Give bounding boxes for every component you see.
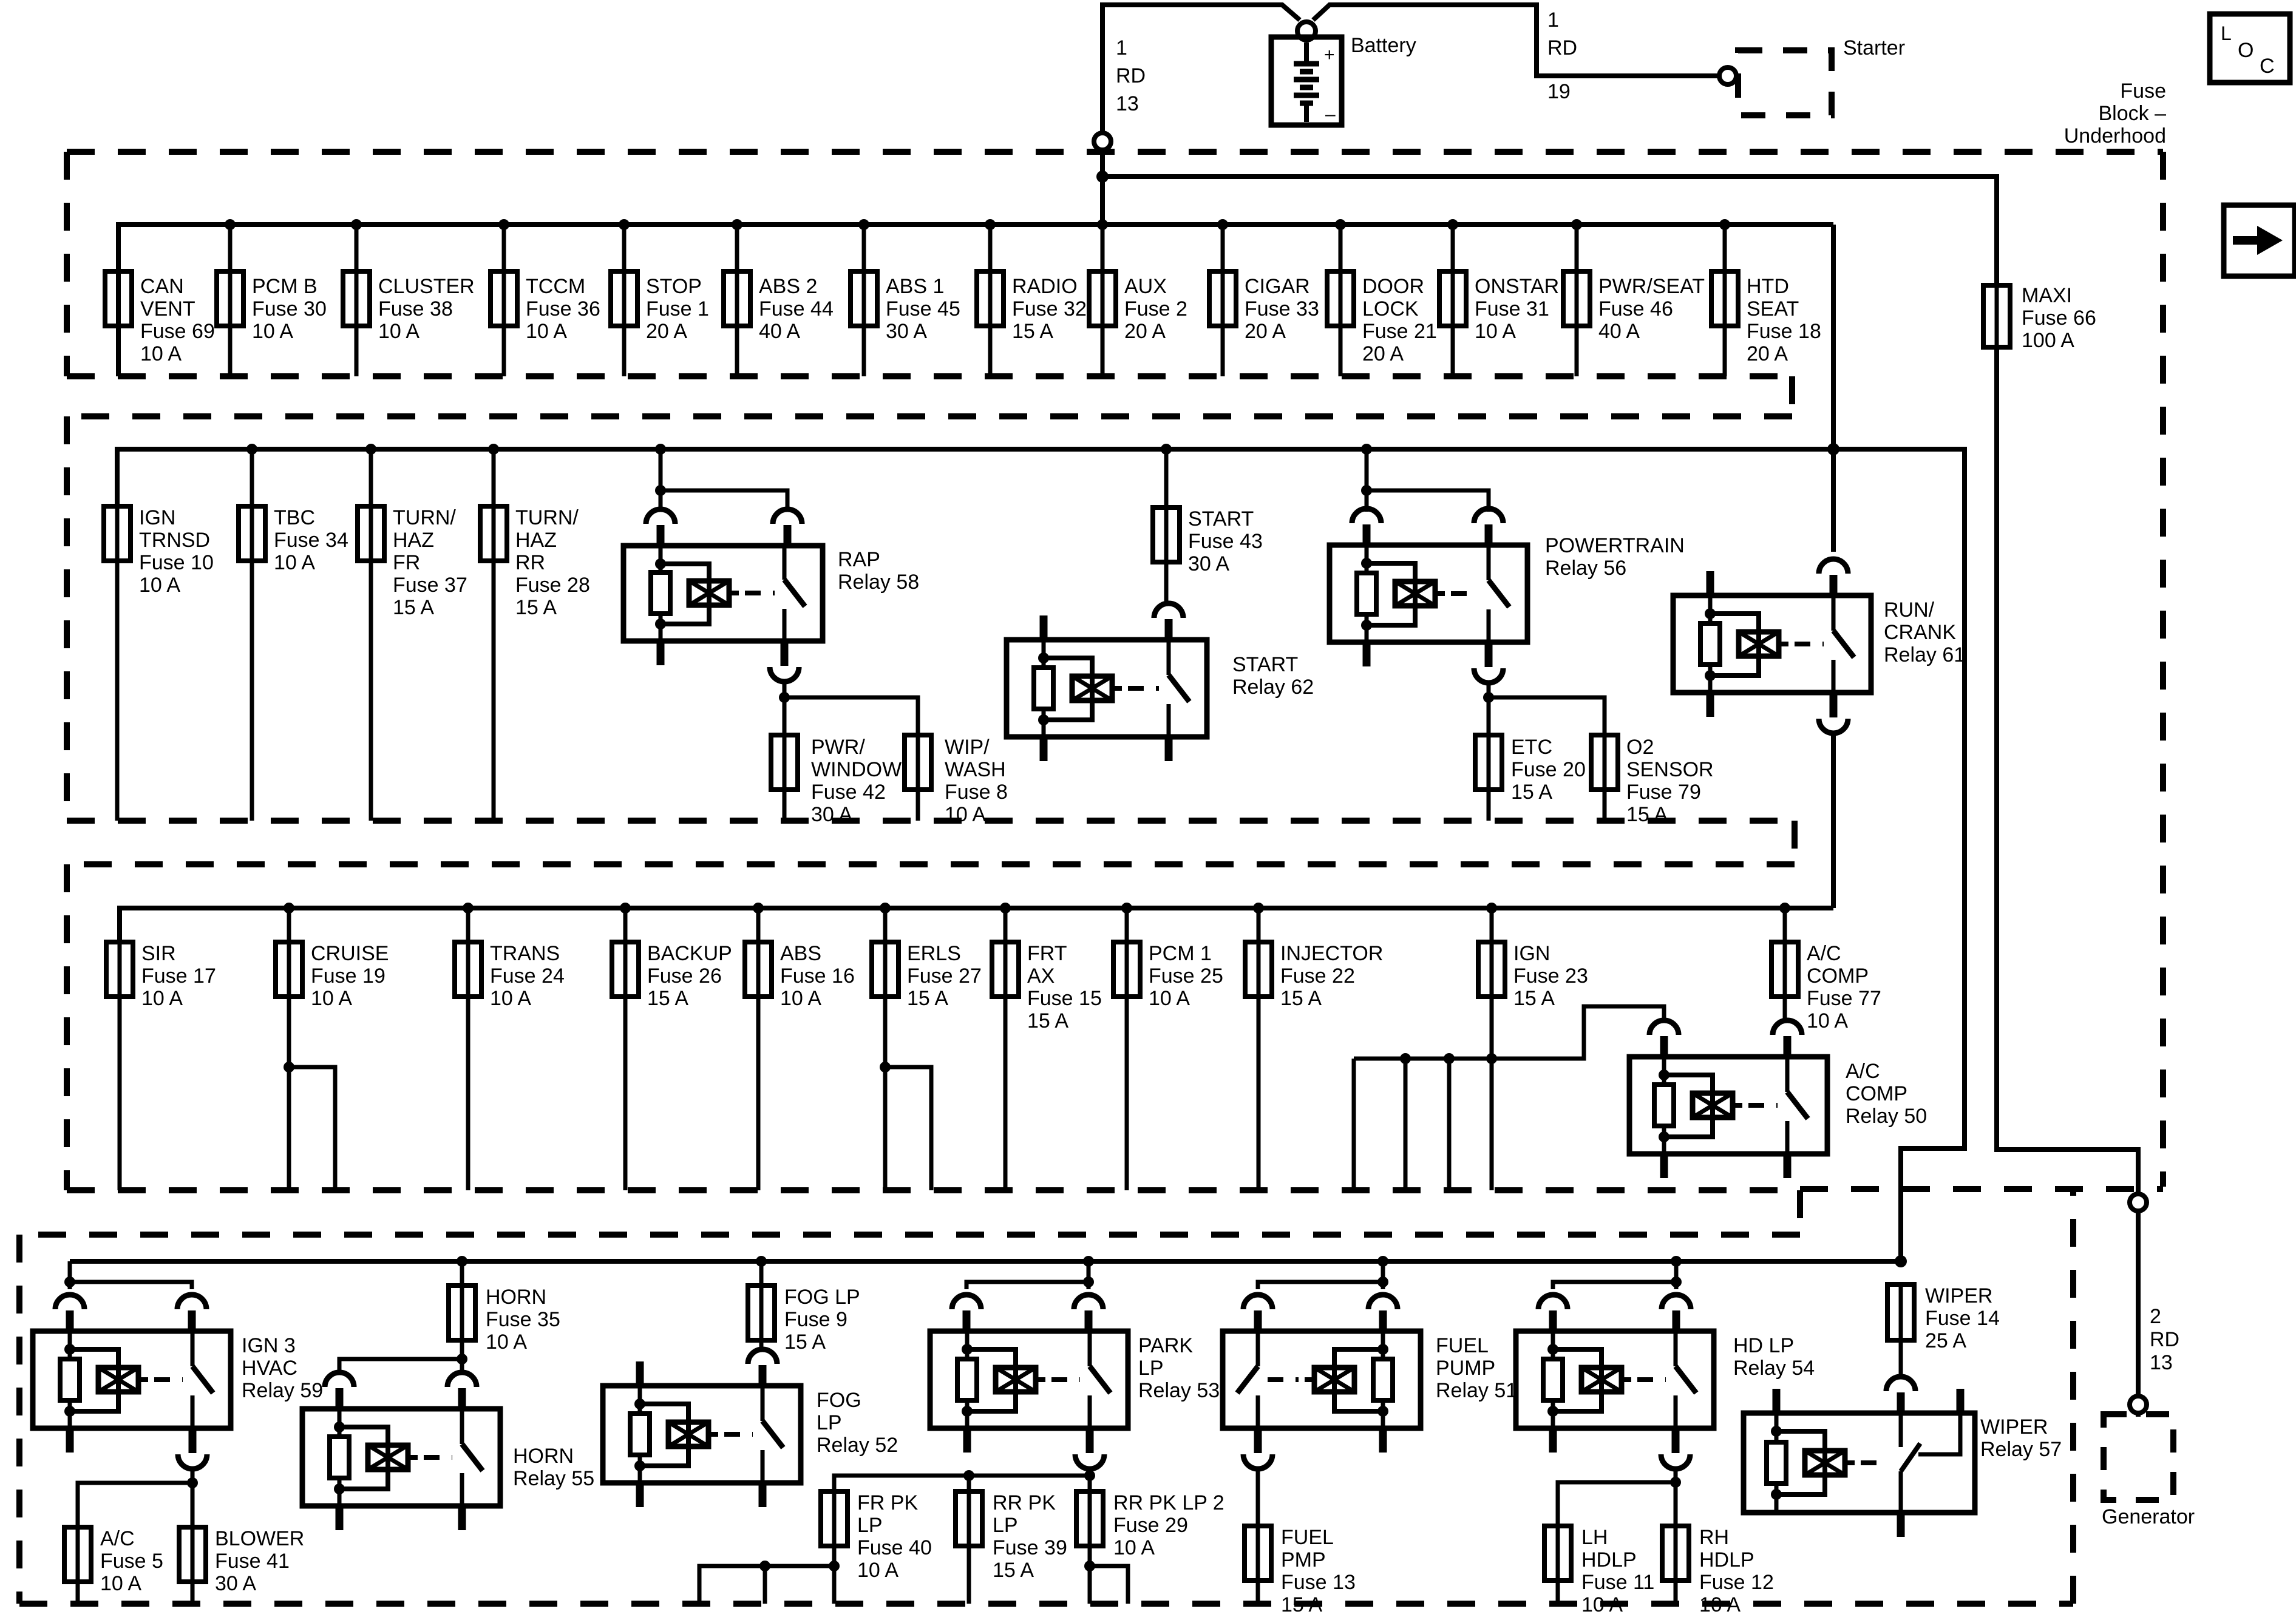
wire fuse ABS Fuse 16 to boundary: [756, 997, 761, 1190]
wire branch to WIP/WASH fuse: [784, 697, 918, 735]
svg-text:15 A: 15 A: [1012, 320, 1053, 343]
svg-text:Fuse 1: Fuse 1: [646, 297, 709, 320]
wire fuse CRUISE Fuse 19 to boundary: [287, 997, 291, 1190]
svg-text:ABS: ABS: [780, 942, 821, 965]
svg-text:VENT: VENT: [140, 297, 195, 320]
svg-text:ABS 2: ABS 2: [759, 275, 817, 298]
svg-text:TBC: TBC: [274, 506, 315, 529]
svg-text:10 A: 10 A: [857, 1559, 898, 1582]
svg-text:10 A: 10 A: [311, 987, 352, 1010]
pin HD LP relay coil 85: [1549, 1426, 1557, 1453]
svg-text:Fuse 46: Fuse 46: [1598, 297, 1673, 320]
wire drop fuse CAN VENT Fuse 69: [117, 225, 121, 376]
svg-text:Fuse 40: Fuse 40: [857, 1536, 932, 1559]
relay PARK LP Relay 53: [930, 1331, 1128, 1428]
fuse FR PK LP Fuse 40: [821, 1491, 847, 1546]
wire drop fuse ERLS Fuse 27: [883, 908, 888, 942]
pin START relay switch 30: [1154, 603, 1183, 618]
svg-text:PUMP: PUMP: [1436, 1357, 1495, 1380]
svg-text:20 A: 20 A: [1747, 342, 1788, 365]
wire POWERTRAIN relay feed: [1365, 449, 1369, 490]
svg-text:10 A: 10 A: [526, 320, 567, 343]
svg-text:HD LP: HD LP: [1733, 1334, 1794, 1357]
svg-text:Fuse 26: Fuse 26: [647, 964, 722, 988]
fuse ETC Fuse 20: [1475, 735, 1502, 790]
pin A/C COMP relay switch 87: [1784, 1151, 1792, 1178]
pin START relay coil 85: [1040, 734, 1048, 761]
wire PWR/WINDOW fuse to boundary: [783, 790, 787, 821]
svg-text:Fuse 69: Fuse 69: [140, 320, 215, 343]
fuse block dashed boundary box 4 bottom: [19, 1601, 2073, 1607]
wire branch HORN relay coil: [339, 1359, 462, 1371]
wire PARK LP output rail: [1088, 1468, 1092, 1476]
pin PARK LP relay coil 85: [963, 1426, 971, 1453]
fuse AUX Fuse 2: [1089, 271, 1116, 326]
pin RUN/CRANK relay coil 85: [1707, 690, 1714, 717]
svg-text:SENSOR: SENSOR: [1626, 758, 1714, 781]
relay FOG LP Relay 52: [603, 1386, 801, 1483]
svg-text:Fuse 33: Fuse 33: [1245, 297, 1319, 320]
svg-text:LP: LP: [1138, 1357, 1164, 1380]
svg-text:Relay 54: Relay 54: [1733, 1357, 1815, 1380]
pin FUEL PUMP relay coil 86: [1368, 1295, 1398, 1309]
svg-text:LH: LH: [1581, 1526, 1608, 1549]
wire drop fuse PWR/SEAT Fuse 46: [1575, 225, 1579, 376]
svg-text:Underhood: Underhood: [2064, 124, 2166, 147]
svg-text:10 A: 10 A: [490, 987, 531, 1010]
pin PARK LP relay coil 86: [952, 1295, 981, 1309]
svg-text:Fuse 22: Fuse 22: [1280, 964, 1355, 988]
wire MAXI fuse to generator circuit: [1997, 347, 2138, 1194]
svg-text:Relay 57: Relay 57: [1980, 1438, 2062, 1461]
svg-text:Fuse 39: Fuse 39: [993, 1536, 1067, 1559]
pin HD LP relay switch 87: [1672, 1430, 1680, 1453]
wire A/C COMP relay coil rail: [1354, 1006, 1664, 1059]
svg-text:A/C: A/C: [100, 1527, 135, 1550]
svg-text:25 A: 25 A: [1925, 1329, 1966, 1352]
svg-text:ETC: ETC: [1511, 736, 1552, 759]
pin HORN relay switch 87: [458, 1503, 466, 1530]
wire branch to A/C fuse: [78, 1483, 192, 1527]
fuse PCM 1 Fuse 25: [1113, 942, 1140, 997]
wire drop fuse PCM 1 Fuse 25: [1125, 908, 1129, 942]
wire drop fuse SIR Fuse 17: [118, 908, 122, 942]
node battery terminal circle: [1297, 22, 1316, 40]
svg-text:Fuse 38: Fuse 38: [378, 297, 453, 320]
svg-text:15 A: 15 A: [647, 987, 688, 1010]
wire WIPER relay switch: [1899, 1413, 1903, 1447]
pin POWERTRAIN relay coil 86: [1352, 509, 1381, 523]
svg-text:INJECTOR: INJECTOR: [1280, 942, 1383, 965]
node junction coil rail 2: [1444, 1053, 1455, 1064]
wire HORN fuse drop: [460, 1261, 464, 1286]
wire coil rail drop 2: [1404, 1059, 1408, 1190]
relay WIPER Relay 57: [1744, 1413, 1975, 1513]
svg-text:FUEL: FUEL: [1436, 1334, 1489, 1357]
node junction bus2 right: [1827, 443, 1839, 455]
svg-text:10 A: 10 A: [945, 803, 986, 826]
fuse CRUISE Fuse 19: [276, 942, 302, 997]
node junction bus4 wiper feed: [1895, 1255, 1907, 1267]
fuse block dashed boundary step 2: [1792, 821, 1798, 864]
wire ETC fuse to boundary: [1487, 790, 1491, 821]
battery B+ lead: [1304, 42, 1309, 62]
wire drop fuse CLUSTER Fuse 38: [355, 225, 359, 376]
svg-text:TRNSD: TRNSD: [139, 529, 210, 552]
node junction HORN relay feed: [457, 1354, 467, 1364]
wire drop fuse PCM B Fuse 30: [228, 225, 233, 376]
svg-text:2: 2: [2150, 1305, 2161, 1328]
svg-text:FUEL: FUEL: [1281, 1526, 1334, 1549]
svg-text:FOG: FOG: [817, 1389, 861, 1412]
svg-text:Fuse 2: Fuse 2: [1124, 297, 1187, 320]
node junction FR PK comb: [829, 1561, 840, 1571]
svg-text:100 A: 100 A: [2022, 329, 2074, 352]
svg-text:40 A: 40 A: [759, 320, 800, 343]
svg-text:RD: RD: [2150, 1328, 2179, 1351]
wire branch to O2 SENSOR fuse: [1489, 697, 1605, 735]
wire fuse PCM 1 Fuse 25 to boundary: [1125, 997, 1129, 1190]
wire O2 SENSOR fuse to boundary: [1603, 790, 1607, 821]
svg-text:Fuse 24: Fuse 24: [490, 964, 565, 988]
svg-text:Battery: Battery: [1351, 34, 1416, 57]
fuse block dashed boundary box 2 left: [64, 416, 70, 821]
pin FUEL PUMP relay switch 30: [1243, 1295, 1272, 1309]
pin FUEL PUMP relay switch 87: [1254, 1430, 1262, 1453]
svg-text:Fuse 29: Fuse 29: [1113, 1514, 1188, 1537]
svg-text:RADIO: RADIO: [1012, 275, 1078, 298]
svg-text:RR: RR: [515, 551, 545, 574]
svg-text:10 A: 10 A: [252, 320, 293, 343]
wire fuse TRANS Fuse 24 to boundary: [466, 997, 470, 1190]
fuse block dashed boundary right edge: [2160, 152, 2166, 1187]
fuse block dashed boundary right shelf: [1800, 1186, 2163, 1192]
wire generator lead: [2136, 1413, 2141, 1417]
pin FOG LP relay switch 87: [759, 1480, 767, 1507]
svg-text:Fuse 36: Fuse 36: [526, 297, 600, 320]
svg-text:Fuse 32: Fuse 32: [1012, 297, 1087, 320]
wire drop fuse TCCM Fuse 36: [502, 225, 506, 376]
wire drop fuse STOP Fuse 1: [622, 225, 627, 376]
wire START fuse to START relay: [1164, 562, 1169, 605]
fuse TBC Fuse 34: [239, 506, 265, 561]
svg-text:Fuse 5: Fuse 5: [100, 1550, 163, 1573]
fuse TURN/HAZ FR Fuse 37: [358, 506, 384, 561]
svg-text:Block –: Block –: [2099, 102, 2167, 125]
svg-text:Fuse 20: Fuse 20: [1511, 758, 1586, 781]
svg-text:+: +: [1324, 45, 1335, 65]
wire FUEL PMP fuse to boundary: [1256, 1581, 1260, 1604]
wire RR PK LP 2 branch: [1090, 1566, 1128, 1604]
svg-text:Relay 61: Relay 61: [1884, 643, 1965, 666]
svg-text:20 A: 20 A: [1124, 320, 1166, 343]
svg-text:Relay 59: Relay 59: [242, 1379, 323, 1402]
wire WIPER fuse to WIPER relay: [1899, 1340, 1903, 1379]
svg-text:O2: O2: [1626, 736, 1654, 759]
relay A/C COMP Relay 50: [1629, 1057, 1827, 1154]
fuse BACKUP Fuse 26: [612, 942, 639, 997]
fuse LH HDLP Fuse 11: [1544, 1526, 1571, 1581]
wire FR PK LP comb: [832, 1546, 837, 1604]
svg-text:13: 13: [1116, 92, 1139, 115]
fuse O2 SENSOR Fuse 79: [1591, 735, 1618, 790]
LOC legend box: [2210, 14, 2290, 83]
svg-text:ONSTAR: ONSTAR: [1475, 275, 1559, 298]
svg-text:CRANK: CRANK: [1884, 621, 1956, 644]
fuse PWR/WINDOW Fuse 42: [771, 735, 798, 790]
svg-text:10 A: 10 A: [1113, 1536, 1155, 1559]
svg-text:C: C: [2260, 55, 2275, 78]
svg-text:WIP/: WIP/: [945, 736, 990, 759]
pin RUN/CRANK relay switch 30: [1819, 559, 1848, 574]
fuse block dashed boundary box 1 left: [64, 152, 70, 376]
node junction RR PK LP 2 below: [1084, 1561, 1095, 1571]
fuse A/C Fuse 5: [64, 1527, 91, 1582]
svg-text:FR: FR: [393, 551, 420, 574]
svg-text:IGN: IGN: [139, 506, 175, 529]
svg-text:RR PK LP 2: RR PK LP 2: [1113, 1491, 1224, 1514]
fuse FUEL PMP Fuse 13: [1245, 1526, 1271, 1581]
svg-text:10 A: 10 A: [139, 574, 180, 597]
node junction POWERTRAIN output: [1483, 692, 1494, 703]
fuse HTD SEAT Fuse 18: [1711, 271, 1738, 326]
wire drop fuse TURN/HAZ RR Fuse 28: [492, 449, 496, 821]
svg-text:WASH: WASH: [945, 758, 1006, 781]
svg-text:WIPER: WIPER: [1980, 1415, 2048, 1439]
svg-text:Fuse 10: Fuse 10: [139, 551, 214, 574]
svg-text:Fuse 77: Fuse 77: [1807, 987, 1881, 1010]
fuse block dashed boundary box 2 bottom: [67, 818, 1795, 824]
svg-text:Fuse 16: Fuse 16: [780, 964, 855, 988]
wire drop fuse RADIO Fuse 32: [988, 225, 993, 376]
fuse ONSTAR Fuse 31: [1439, 271, 1466, 326]
fuse block dashed boundary box 1 top: [67, 149, 2163, 155]
wire drop fuse CRUISE Fuse 19: [287, 908, 291, 942]
pin HORN relay coil 86: [325, 1372, 354, 1387]
wire LH HDLP fuse to boundary: [1556, 1581, 1560, 1604]
wire bus row 2: [117, 449, 1833, 506]
wire IGN 3 HVAC relay feed: [70, 1261, 192, 1289]
svg-text:15 A: 15 A: [1511, 781, 1552, 804]
pin RAP relay coil 85: [657, 639, 665, 665]
svg-text:START: START: [1232, 653, 1298, 676]
svg-text:15 A: 15 A: [784, 1331, 826, 1354]
pin FOG LP relay coil 85: [636, 1480, 644, 1507]
svg-text:19: 19: [1547, 80, 1571, 103]
pin PARK LP relay switch 87: [1086, 1430, 1094, 1453]
svg-text:Fuse 19: Fuse 19: [311, 964, 385, 988]
svg-text:AX: AX: [1027, 964, 1055, 988]
fuse DOOR LOCK Fuse 21: [1327, 271, 1354, 326]
svg-text:Relay 51: Relay 51: [1436, 1379, 1517, 1402]
fuse FOG LP Fuse 9: [748, 1286, 775, 1340]
wire FUEL PUMP relay feed: [1258, 1261, 1383, 1289]
fuse INJECTOR Fuse 22: [1245, 942, 1272, 997]
svg-text:CIGAR: CIGAR: [1245, 275, 1310, 298]
pin A/C COMP relay coil 86: [1649, 1020, 1679, 1035]
wire branch below fuse ERLS Fuse 27: [885, 1067, 931, 1190]
wire drop fuse AUX Fuse 2: [1101, 225, 1105, 376]
svg-text:40 A: 40 A: [1598, 320, 1640, 343]
svg-text:COMP: COMP: [1846, 1082, 1907, 1105]
pin A/C COMP relay switch 30: [1773, 1020, 1802, 1035]
relay POWERTRAIN Relay 56: [1330, 545, 1527, 642]
fuse START Fuse 43: [1153, 507, 1180, 562]
svg-text:AUX: AUX: [1124, 275, 1167, 298]
relay RAP Relay 58: [623, 546, 823, 641]
svg-text:A/C: A/C: [1807, 942, 1841, 965]
fuse TURN/HAZ RR Fuse 28: [480, 506, 507, 561]
svg-text:Fuse 25: Fuse 25: [1149, 964, 1223, 988]
svg-text:PARK: PARK: [1138, 1334, 1193, 1357]
wire START fuse drop: [1164, 449, 1169, 507]
wire drop fuse IGN Fuse 23: [1490, 908, 1494, 942]
wire drop fuse ABS 1 Fuse 45: [862, 225, 866, 376]
svg-text:A/C: A/C: [1846, 1060, 1880, 1083]
svg-text:LP: LP: [817, 1411, 842, 1434]
node battery feed connector circle at boundary: [1100, 151, 1105, 225]
wire drop fuse TRANS Fuse 24: [466, 908, 470, 942]
svg-text:TURN/: TURN/: [515, 506, 579, 529]
wire drop fuse BACKUP Fuse 26: [623, 908, 628, 942]
fuse ERLS Fuse 27: [872, 942, 898, 997]
pin FUEL PUMP relay coil 85: [1379, 1426, 1387, 1453]
svg-text:FOG LP: FOG LP: [784, 1286, 860, 1309]
pin IGN 3 HVAC relay coil 86: [55, 1295, 84, 1309]
wire battery positive top bus: [1102, 5, 1300, 225]
wire drop fuse TURN/HAZ FR Fuse 37: [369, 449, 373, 821]
svg-text:COMP: COMP: [1807, 964, 1869, 988]
svg-text:Fuse 14: Fuse 14: [1925, 1307, 2000, 1330]
wire drop fuse ONSTAR Fuse 31: [1451, 225, 1455, 376]
pin HD LP relay coil 86: [1538, 1295, 1567, 1309]
fuse CLUSTER Fuse 38: [343, 271, 370, 326]
svg-text:L: L: [2221, 22, 2232, 44]
svg-text:Fuse 66: Fuse 66: [2022, 307, 2096, 330]
wire RAP relay feed: [659, 449, 663, 490]
fuse block dashed boundary box 4 left: [16, 1235, 22, 1604]
wire fuse ERLS Fuse 27 to boundary: [883, 997, 888, 1190]
fuse block dashed boundary step 3: [1797, 1190, 1803, 1235]
relay HD LP Relay 54: [1516, 1331, 1714, 1428]
wire coil rail drop 1: [1352, 1059, 1356, 1190]
svg-text:Fuse 9: Fuse 9: [784, 1308, 847, 1331]
pin PARK LP relay switch 30: [1074, 1295, 1103, 1309]
svg-text:HORN: HORN: [486, 1286, 546, 1309]
fuse PCM B Fuse 30: [217, 271, 243, 326]
svg-text:Fuse: Fuse: [2120, 80, 2166, 103]
relay HORN Relay 55: [302, 1409, 500, 1506]
svg-text:10 A: 10 A: [780, 987, 821, 1010]
svg-text:CRUISE: CRUISE: [311, 942, 389, 965]
wire IGN fuse to boundary: [1490, 997, 1494, 1190]
fuse RH HDLP Fuse 12: [1662, 1526, 1689, 1581]
pin START relay coil 86: [1040, 615, 1048, 642]
battery symbol: [1271, 37, 1342, 125]
fuse ABS 1 Fuse 45: [851, 271, 877, 326]
pin HORN relay switch 30: [447, 1372, 477, 1387]
svg-text:RH: RH: [1699, 1526, 1729, 1549]
wire PARK LP relay feed: [966, 1261, 1089, 1289]
svg-text:Fuse 37: Fuse 37: [393, 574, 467, 597]
wire fuse INJECTOR Fuse 22 to boundary: [1257, 997, 1261, 1190]
svg-text:1: 1: [1116, 36, 1127, 59]
fuse PWR/SEAT Fuse 46: [1563, 271, 1590, 326]
wire fuse SIR Fuse 17 to boundary: [118, 997, 122, 1190]
svg-text:13: 13: [2150, 1351, 2173, 1374]
node junction below fuse ERLS Fuse 27: [880, 1062, 891, 1073]
svg-text:15 A: 15 A: [515, 596, 557, 619]
wire FOG LP fuse drop: [759, 1261, 764, 1286]
svg-text:Fuse 34: Fuse 34: [274, 529, 348, 552]
svg-text:BLOWER: BLOWER: [215, 1527, 304, 1550]
svg-text:PMP: PMP: [1281, 1548, 1326, 1571]
svg-text:30 A: 30 A: [1188, 552, 1229, 575]
svg-text:RUN/: RUN/: [1884, 598, 1935, 622]
svg-text:15 A: 15 A: [907, 987, 948, 1010]
wire IGN 3 output: [191, 1468, 195, 1527]
svg-text:HAZ: HAZ: [393, 529, 434, 552]
svg-text:RD: RD: [1547, 36, 1577, 59]
svg-text:PWR/: PWR/: [811, 736, 865, 759]
relay IGN 3 HVAC Relay 59: [33, 1331, 231, 1428]
wire RR PK fuse to boundary: [967, 1546, 971, 1604]
svg-text:Fuse 13: Fuse 13: [1281, 1571, 1356, 1594]
svg-text:IGN: IGN: [1513, 942, 1550, 965]
pin RUN/CRANK relay switch 87: [1830, 694, 1838, 717]
node junction IGN 3 output: [187, 1477, 198, 1488]
wire A/C COMP fuse to relay: [1783, 997, 1787, 1023]
wire FOG LP fuse to relay: [759, 1340, 764, 1351]
node junction RAP output: [779, 692, 790, 703]
svg-text:Generator: Generator: [2102, 1505, 2195, 1528]
pin POWERTRAIN relay switch 30: [1474, 509, 1503, 523]
svg-text:Fuse 8: Fuse 8: [945, 781, 1008, 804]
svg-text:Fuse 21: Fuse 21: [1362, 320, 1437, 343]
node junction PARK LP feed: [1083, 1276, 1094, 1287]
wire drop fuse ABS Fuse 16: [756, 908, 761, 942]
pin POWERTRAIN relay coil 85: [1363, 640, 1371, 666]
svg-text:LOCK: LOCK: [1362, 297, 1419, 320]
svg-text:1: 1: [1547, 8, 1559, 32]
svg-text:PCM B: PCM B: [252, 275, 318, 298]
fuse HORN Fuse 35: [449, 1286, 475, 1340]
svg-text:HORN: HORN: [513, 1445, 574, 1468]
node junction IGN 3 feed: [64, 1276, 75, 1287]
arrow legend box: [2224, 205, 2295, 276]
fuse TCCM Fuse 36: [491, 271, 517, 326]
fuse RR PK LP Fuse 39: [956, 1491, 982, 1546]
wire FUEL PUMP output: [1256, 1468, 1260, 1526]
svg-text:TCCM: TCCM: [526, 275, 585, 298]
wire RR PK LP 2 fuse to boundary: [1088, 1546, 1092, 1604]
svg-text:15 A: 15 A: [393, 596, 434, 619]
wire RH HDLP fuse to boundary: [1674, 1581, 1678, 1604]
svg-text:20 A: 20 A: [646, 320, 687, 343]
svg-text:Fuse 41: Fuse 41: [215, 1550, 290, 1573]
wire drop fuse ABS 2 Fuse 44: [735, 225, 739, 376]
wire fuse BACKUP Fuse 26 to boundary: [623, 997, 628, 1190]
fuse IGN Fuse 23: [1478, 942, 1505, 997]
pin START relay switch 87: [1165, 734, 1173, 761]
pin IGN 3 HVAC relay switch 30: [177, 1295, 206, 1309]
svg-text:Fuse 27: Fuse 27: [907, 964, 982, 988]
svg-text:Fuse 35: Fuse 35: [486, 1308, 560, 1331]
pin WIPER relay switch 30: [1886, 1377, 1915, 1391]
fuse STOP Fuse 1: [611, 271, 637, 326]
wire drop fuse CIGAR Fuse 33: [1221, 225, 1225, 376]
fuse block dashed boundary box 1 bottom: [67, 373, 1792, 379]
